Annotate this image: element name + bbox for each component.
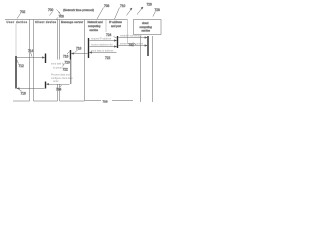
svg-text:IP address: IP address (109, 20, 122, 24)
node label 704 (50, 12, 62, 16)
svg-text:718: 718 (76, 47, 82, 51)
svg-text:receive address info: receive address info (91, 44, 113, 47)
svg-text:700: 700 (48, 8, 54, 12)
svg-text:Message server: Message server (61, 20, 83, 24)
arrow 718 service to message server (72, 53, 88, 55)
svg-text:establish connection: establish connection (120, 35, 142, 38)
node label 726 (129, 43, 137, 48)
node label 732 (56, 85, 62, 92)
node label 714 (28, 49, 34, 57)
svg-text:710: 710 (120, 4, 126, 8)
svg-text:722: 722 (63, 68, 69, 72)
lane B4-B5 bottom rule right part (112, 100, 133, 102)
lane B1 bottom (13, 100, 30, 102)
activation bar network service (88, 38, 90, 58)
node label 718 (75, 47, 82, 53)
svg-text:732: 732 (129, 43, 135, 47)
node label 720 (63, 61, 71, 67)
svg-text:computing: computing (140, 25, 153, 29)
svg-text:User device: User device (7, 20, 28, 24)
activation bar user device (15, 56, 17, 89)
lane B5 right edge (127, 20, 129, 45)
svg-text:714: 714 (28, 49, 34, 53)
node label 726 top (147, 3, 153, 7)
node label 716 (19, 90, 26, 96)
node 700 caption label (48, 8, 60, 13)
svg-text:708: 708 (104, 4, 110, 8)
svg-text:request IP address: request IP address (91, 38, 112, 41)
node figure caption text (63, 8, 94, 12)
node label 722b (63, 68, 69, 72)
box cloud computing service (134, 20, 162, 35)
svg-text:726: 726 (147, 3, 153, 7)
svg-text:service: service (90, 28, 99, 32)
svg-text:724: 724 (106, 33, 112, 37)
arrow return client to user (17, 88, 45, 90)
arrow 2 service to ip/port (90, 46, 117, 48)
node label 708 (97, 4, 110, 19)
svg-text:702: 702 (20, 10, 26, 14)
lane B3 left edge (59, 20, 61, 102)
node label 712 (17, 60, 24, 68)
svg-text:716: 716 (63, 55, 69, 59)
arrow 5 cloud back (119, 45, 148, 47)
wire cloud lifeline left (140, 36, 142, 102)
lane B2 bottom (34, 100, 58, 102)
activation bar client device upper (45, 54, 47, 64)
lane B4-B5 bottom rule left part (85, 100, 102, 102)
wire top rule (5, 19, 128, 21)
activation bar message server (70, 50, 72, 84)
svg-text:send task for: send task for (51, 63, 65, 66)
wire diagonal arrow b (137, 7, 143, 15)
arrow 4 ip/port to cloud (119, 37, 148, 39)
node label 728 (153, 8, 160, 17)
svg-text:716: 716 (21, 92, 27, 96)
arrow 714 user to client (17, 57, 45, 59)
lane B2 left edge (33, 20, 35, 102)
node label 706 (56, 15, 64, 20)
box cloud computing service text (140, 21, 153, 33)
svg-text:order: order (53, 80, 59, 83)
svg-text:service: service (142, 29, 151, 33)
svg-text:706: 706 (59, 15, 65, 19)
lane B1 right edge (29, 20, 31, 102)
svg-text:send data to address: send data to address (91, 50, 114, 53)
svg-text:734: 734 (56, 88, 62, 92)
lane B2/B3 shared edge (57, 20, 59, 102)
svg-text:to group: to group (53, 67, 62, 70)
node text-block white underlay (50, 60, 71, 85)
lane header IP address and port (109, 20, 122, 28)
activation bar cloud (147, 36, 149, 56)
svg-text:Client device: Client device (35, 20, 57, 24)
node label 702 (17, 10, 26, 19)
svg-text:cloud: cloud (142, 21, 149, 25)
node label 722 (105, 56, 111, 60)
lane B3/B4 shared edge (84, 20, 86, 101)
wire diagonal arrow a (127, 8, 133, 16)
node label 724 (106, 33, 117, 38)
wire cloud lifeline right (152, 36, 154, 102)
lane B4/B5 divider (105, 20, 107, 33)
arrow 1 service to ip/port (90, 40, 117, 42)
activation bar client device lower (45, 82, 47, 89)
svg-text:722: 722 (105, 56, 111, 60)
svg-text:720: 720 (65, 61, 71, 65)
node text paragraph (51, 74, 73, 84)
lane B3 bottom (60, 100, 85, 102)
svg-text:and port: and port (111, 24, 121, 28)
svg-text:736: 736 (103, 100, 108, 104)
lane header Network computing service (88, 20, 104, 32)
lifeline user device thin (15, 24, 17, 57)
activation bar ip/port (117, 36, 119, 48)
node label 716b (63, 52, 70, 59)
svg-text:computing: computing (88, 24, 101, 28)
node label 710 (115, 4, 126, 19)
svg-text:(Network time protocol): (Network time protocol) (63, 8, 94, 12)
svg-text:728: 728 (155, 8, 161, 12)
svg-text:Network and: Network and (88, 20, 104, 24)
arrow 3 ip/port back to service (90, 52, 117, 54)
svg-text:712: 712 (19, 64, 25, 68)
arrow return server to client (47, 83, 70, 85)
